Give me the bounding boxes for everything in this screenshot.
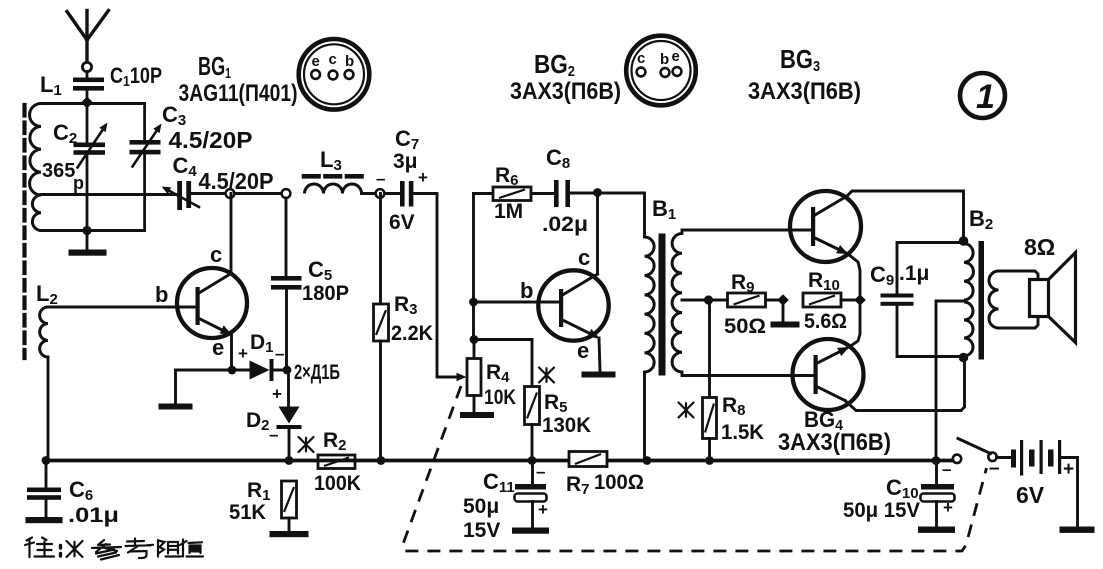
svg-text:c: c	[329, 51, 337, 68]
wire (BG1 emitter)	[230, 335, 233, 371]
BG1 socket (pinout view)	[299, 39, 370, 110]
svg-text:–: –	[269, 425, 278, 444]
wire	[362, 192, 381, 195]
resistor R1 51K	[229, 479, 297, 531]
note: reference resistance values	[25, 538, 61, 558]
svg-text:3μ: 3μ	[393, 150, 418, 173]
node	[704, 295, 713, 304]
svg-text:e: e	[577, 338, 589, 363]
transistor BG3	[790, 191, 861, 262]
svg-text:1: 1	[976, 78, 995, 116]
capacitor C9 .1u	[870, 243, 964, 357]
capacitor C10 50u 15V (electrolytic)	[843, 460, 955, 527]
node	[528, 456, 537, 465]
node	[376, 189, 385, 198]
battery 6V	[989, 440, 1078, 527]
capacitor C5 180P	[271, 198, 349, 370]
node	[932, 456, 941, 465]
resistor R7 100ohm	[566, 452, 644, 499]
svg-text:–: –	[989, 458, 1000, 479]
capacitor C11 50u 15V (electrolytic)	[463, 461, 548, 543]
svg-text:4.5/20P: 4.5/20P	[199, 168, 274, 194]
svg-text:+: +	[238, 344, 248, 363]
svg-text:365: 365	[42, 160, 75, 182]
svg-text:15V: 15V	[463, 519, 500, 542]
node	[282, 189, 291, 198]
wire	[176, 370, 232, 403]
wire (L2 to BG1 base)	[48, 306, 196, 309]
node	[854, 294, 866, 306]
wire	[385, 192, 401, 195]
svg-text:3AX3(Π6B): 3AX3(Π6B)	[778, 429, 891, 456]
svg-text:+: +	[272, 385, 282, 404]
node	[377, 456, 386, 465]
resistor R10 5.6ohm	[803, 269, 860, 333]
switch K	[953, 439, 997, 463]
svg-text:b: b	[520, 278, 533, 303]
ground	[582, 372, 616, 378]
svg-text:50μ 15V: 50μ 15V	[843, 499, 920, 522]
svg-text:b: b	[155, 282, 168, 307]
svg-text:–: –	[376, 169, 385, 188]
speaker 8ohm	[999, 234, 1076, 343]
capacitor C1	[73, 63, 162, 99]
svg-text:b: b	[660, 51, 669, 68]
resistor R5 130K	[474, 340, 591, 461]
svg-text:.01μ: .01μ	[68, 504, 119, 527]
ground	[26, 517, 63, 523]
wire (tank bottom)	[41, 229, 145, 232]
capacitor C2 365p (variable)	[42, 120, 108, 193]
wire (B2 centre tap to supply)	[936, 301, 964, 461]
resistor R8 1.5K	[679, 300, 765, 461]
transformer B1	[645, 193, 814, 461]
svg-text:–: –	[942, 460, 951, 479]
svg-text:2×Д1Б: 2×Д1Б	[294, 361, 340, 384]
diode D1 2xД1Б	[232, 331, 340, 384]
node: antenna/L1 top junction	[81, 97, 93, 109]
wire (BG2 base)	[474, 301, 560, 304]
svg-text:c: c	[637, 50, 645, 67]
wire	[86, 156, 89, 231]
wire	[41, 102, 145, 105]
wire (C7 to R4 wiper)	[414, 194, 459, 378]
svg-text:C110P: C110P	[110, 63, 162, 90]
transistor BG3 label	[748, 44, 861, 105]
wire (BG3 collector to B2 top)	[847, 191, 964, 238]
svg-text:100K: 100K	[314, 472, 361, 495]
svg-text:e: e	[212, 335, 224, 360]
transistor BG4	[793, 339, 864, 410]
transformer B2	[964, 206, 999, 360]
resistor R6 1M	[474, 164, 532, 223]
svg-text:–: –	[536, 462, 545, 481]
capacitor C7 3u 6V (electrolytic)	[376, 126, 428, 234]
svg-text:6V: 6V	[389, 211, 415, 234]
node	[766, 299, 784, 302]
wire (BG4 emitter)	[849, 306, 860, 347]
node	[285, 456, 294, 465]
wire	[235, 192, 287, 195]
resistor R2 100K	[299, 429, 362, 495]
svg-text:e: e	[312, 53, 320, 70]
svg-text:.1μ: .1μ	[899, 262, 929, 285]
svg-text:e: e	[672, 48, 680, 65]
resistor R9 50ohm	[709, 271, 767, 338]
transistor BG1	[155, 242, 247, 360]
node	[643, 456, 652, 465]
wire	[143, 156, 146, 231]
capacitor C4 4.5/20P (trimmer)	[162, 153, 274, 210]
wire (BG2 collector)	[596, 193, 599, 275]
svg-text:1.5K: 1.5K	[721, 421, 764, 444]
capacitor C8 .02u	[531, 145, 644, 236]
svg-text:+: +	[538, 500, 548, 519]
svg-text:4.5/20P: 4.5/20P	[169, 127, 253, 153]
svg-text:c: c	[210, 242, 222, 267]
svg-text:1M: 1M	[494, 200, 523, 223]
capacitor C6 .01u	[27, 456, 119, 527]
core (dashed) of L1/L2	[22, 105, 26, 358]
capacitor C3 4.5/20P (trimmer)	[130, 102, 253, 167]
resistor R4 10K (volume pot)	[467, 340, 516, 413]
svg-text:3AG11(Π401): 3AG11(Π401)	[179, 80, 298, 107]
svg-text:c: c	[578, 245, 590, 270]
svg-text:50Ω: 50Ω	[724, 315, 766, 338]
ground	[270, 531, 309, 537]
ground	[1060, 527, 1095, 533]
node	[283, 366, 292, 375]
svg-text:.02μ: .02μ	[542, 213, 588, 236]
svg-text:3AX3(Π6B): 3AX3(Π6B)	[510, 78, 621, 105]
transistor BG1 label	[179, 51, 298, 107]
wire (BG4 collector to B2 bottom)	[845, 358, 965, 411]
resistor R3 2.2K	[374, 194, 434, 461]
svg-text:6V: 6V	[1016, 482, 1045, 508]
svg-text:+: +	[418, 168, 428, 187]
transistor BG4 label	[778, 407, 891, 456]
svg-text:+: +	[1063, 459, 1074, 480]
svg-text:p: p	[73, 173, 84, 193]
wire (base bias line)	[472, 194, 475, 340]
node	[82, 226, 91, 235]
transistor BG2	[520, 245, 609, 363]
node	[470, 335, 479, 344]
svg-text:–: –	[275, 344, 284, 363]
transistor BG2 label	[510, 49, 621, 105]
svg-text:8Ω: 8Ω	[1024, 234, 1055, 260]
svg-text:100Ω: 100Ω	[594, 471, 644, 494]
node	[42, 456, 51, 465]
wire (tank box right edge)	[143, 104, 146, 141]
svg-text:b: b	[345, 53, 354, 70]
wire	[47, 357, 50, 461]
svg-text:5.6Ω: 5.6Ω	[804, 310, 847, 333]
svg-text:+: +	[943, 498, 953, 517]
inductor L1	[30, 72, 62, 231]
svg-text:10K: 10K	[484, 386, 516, 409]
BG2 socket (pinout view)	[626, 36, 696, 106]
node	[959, 353, 969, 363]
diode D2	[246, 370, 302, 461]
svg-text:130K: 130K	[542, 414, 591, 437]
wire (BG1 collector)	[230, 194, 233, 274]
wire (BG3 emitter)	[848, 254, 860, 294]
node	[226, 189, 235, 198]
node	[228, 366, 237, 375]
ground	[159, 404, 193, 410]
node	[959, 236, 969, 246]
antenna	[67, 11, 109, 78]
svg-text:50μ: 50μ	[463, 495, 499, 518]
wire (BG2 emitter)	[599, 338, 600, 371]
svg-text:180P: 180P	[302, 282, 349, 305]
inductor L3	[304, 147, 362, 194]
svg-text:2.2K: 2.2K	[391, 322, 433, 345]
dashed mechanical linkage (pot R4 to switch)	[403, 386, 987, 551]
wire (tap to C4)	[41, 193, 176, 196]
wire (bottom bus)	[46, 459, 953, 463]
ground	[460, 412, 494, 418]
ground	[69, 250, 107, 256]
inductor L2	[36, 281, 58, 357]
node	[705, 456, 714, 465]
wire	[86, 231, 89, 250]
node	[469, 298, 478, 307]
wire	[86, 104, 89, 144]
svg-text:51K: 51K	[229, 501, 266, 524]
node	[593, 188, 602, 197]
wire	[192, 192, 231, 195]
ground (between R9 and R10)	[782, 300, 785, 322]
ground	[918, 527, 955, 533]
figure number 1	[960, 73, 1005, 118]
ground	[512, 528, 549, 534]
svg-text:3AX3(Π6B): 3AX3(Π6B)	[748, 78, 861, 105]
